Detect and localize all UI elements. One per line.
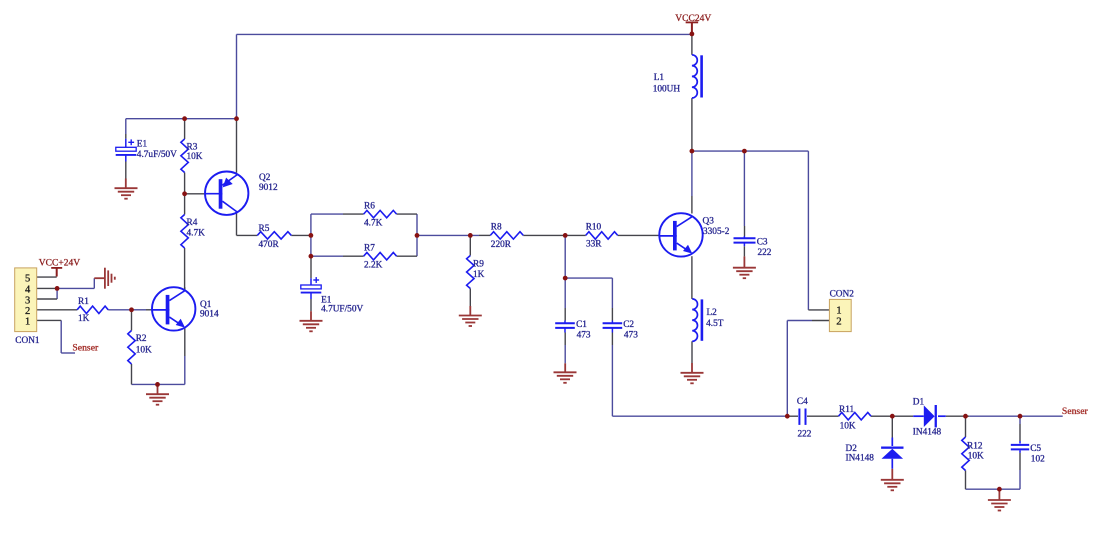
svg-text:Senser: Senser [72,343,99,354]
svg-text:IN4148: IN4148 [913,428,942,438]
svg-text:VCC24V: VCC24V [675,14,711,24]
svg-text:D1: D1 [913,398,925,408]
svg-text:2.2K: 2.2K [364,261,383,271]
svg-text:C3: C3 [757,238,768,248]
svg-text:102: 102 [1031,455,1045,465]
svg-text:R5: R5 [259,224,270,234]
svg-text:10K: 10K [968,452,984,462]
svg-text:C4: C4 [797,397,808,407]
svg-text:1K: 1K [473,270,485,280]
svg-text:L2: L2 [707,308,718,318]
svg-text:R7: R7 [364,244,375,254]
svg-text:470R: 470R [259,240,280,250]
svg-text:3305-2: 3305-2 [703,227,730,237]
svg-text:L1: L1 [654,73,665,83]
svg-text:C2: C2 [623,320,634,330]
svg-text:R8: R8 [491,223,502,233]
svg-text:100UH: 100UH [653,85,681,95]
svg-text:473: 473 [624,330,638,340]
svg-text:Senser: Senser [1062,406,1089,417]
svg-text:3: 3 [25,295,30,306]
svg-text:4.7uF/50V: 4.7uF/50V [137,150,177,160]
svg-text:1K: 1K [78,314,90,324]
svg-text:C5: C5 [1030,444,1041,454]
svg-text:R10: R10 [586,223,602,233]
svg-text:R11: R11 [839,405,855,415]
svg-text:VCC+24V: VCC+24V [39,258,80,268]
svg-text:9012: 9012 [259,183,278,193]
svg-text:222: 222 [758,248,772,258]
svg-text:1: 1 [25,317,30,328]
svg-text:IN4148: IN4148 [846,453,875,463]
svg-text:4.7K: 4.7K [187,228,206,238]
svg-text:4.7K: 4.7K [364,219,383,229]
svg-text:4.7UF/50V: 4.7UF/50V [321,305,363,315]
svg-text:Q1: Q1 [200,300,212,310]
svg-text:10K: 10K [187,152,203,162]
svg-text:R9: R9 [473,260,484,270]
svg-text:222: 222 [798,430,812,440]
svg-text:5: 5 [25,273,30,284]
svg-text:E1: E1 [137,140,148,150]
svg-text:C1: C1 [576,320,587,330]
svg-text:2: 2 [25,306,30,317]
svg-text:Q2: Q2 [259,173,271,183]
svg-text:4: 4 [25,285,31,296]
svg-text:Q3: Q3 [703,217,715,227]
svg-text:R2: R2 [136,334,147,344]
svg-text:D2: D2 [846,444,858,454]
svg-text:CON2: CON2 [830,290,855,300]
svg-text:33R: 33R [586,240,602,250]
svg-text:10K: 10K [136,346,152,356]
svg-text:220R: 220R [491,240,512,250]
svg-text:10K: 10K [840,421,856,431]
svg-text:2: 2 [836,316,841,328]
svg-text:4.5T: 4.5T [706,319,724,329]
svg-text:CON1: CON1 [15,336,40,346]
svg-text:R12: R12 [967,442,983,452]
svg-text:473: 473 [577,330,591,340]
svg-text:R4: R4 [187,218,198,228]
svg-text:9014: 9014 [200,310,219,320]
svg-text:R1: R1 [78,297,89,307]
svg-text:R3: R3 [187,142,198,152]
svg-text:R6: R6 [364,201,375,211]
